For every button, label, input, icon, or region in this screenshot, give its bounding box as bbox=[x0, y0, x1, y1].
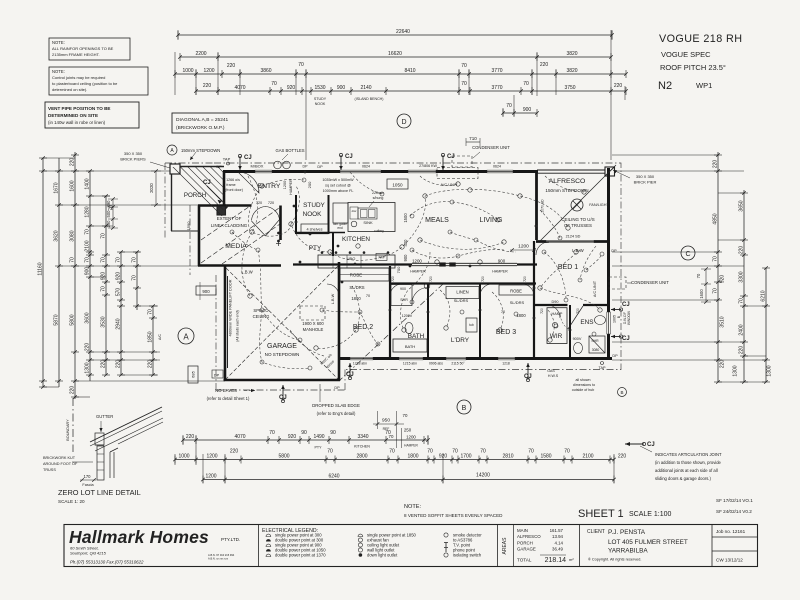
svg-text:70: 70 bbox=[713, 288, 719, 294]
CJ marker ldry bottom bbox=[524, 363, 532, 382]
svg-text:1400: 1400 bbox=[85, 178, 91, 189]
150mm stepdown note bbox=[181, 148, 220, 160]
alfresco fan/light symbol bbox=[571, 199, 609, 211]
svg-text:218.14: 218.14 bbox=[545, 557, 567, 564]
media room walls bbox=[198, 206, 281, 267]
dim 250/1200 hamper bbox=[402, 428, 419, 449]
window right wall ens bbox=[607, 312, 611, 334]
svg-text:220: 220 bbox=[720, 360, 726, 369]
svg-text:1590: 1590 bbox=[186, 221, 191, 231]
eave dashed outline bbox=[165, 163, 621, 390]
svg-text:70: 70 bbox=[389, 434, 394, 439]
interior wall ldry/bed3 bbox=[479, 284, 481, 359]
svg-text:220: 220 bbox=[148, 360, 154, 369]
garage manhole dashed box bbox=[300, 306, 325, 320]
right extension lines bbox=[612, 155, 766, 382]
svg-text:2115 50ʺ: 2115 50ʺ bbox=[451, 362, 465, 366]
svg-text:70: 70 bbox=[461, 63, 467, 69]
svg-text:3820: 3820 bbox=[566, 68, 577, 74]
svg-text:5800: 5800 bbox=[278, 454, 289, 460]
svg-text:STUDY: STUDY bbox=[314, 97, 327, 101]
svg-text:720: 720 bbox=[481, 276, 485, 282]
garage wall right / bed2 left bbox=[338, 262, 341, 381]
svg-text:PORCH: PORCH bbox=[184, 192, 206, 199]
svg-text:L'DRY: L'DRY bbox=[451, 337, 470, 344]
circled A marker bbox=[178, 328, 194, 344]
svg-text:250: 250 bbox=[404, 428, 412, 433]
svg-text:220: 220 bbox=[186, 434, 195, 440]
svg-text:NOTE:: NOTE: bbox=[52, 69, 65, 74]
circled C marker bbox=[681, 246, 695, 260]
svg-text:DP: DP bbox=[214, 374, 220, 378]
dim row 1000-3820 bbox=[173, 62, 628, 78]
svg-text:additional joints at each side: additional joints at each side of all bbox=[655, 468, 718, 473]
svg-text:710: 710 bbox=[469, 136, 477, 141]
svg-text:2140: 2140 bbox=[360, 85, 371, 91]
svg-text:1670: 1670 bbox=[54, 182, 60, 193]
svg-text:4070: 4070 bbox=[234, 434, 245, 440]
svg-text:170: 170 bbox=[84, 474, 92, 479]
svg-text:3650: 3650 bbox=[739, 200, 745, 211]
CJ marker porch bbox=[203, 180, 222, 204]
svg-text:CJ: CJ bbox=[345, 154, 353, 160]
svg-text:5800: 5800 bbox=[70, 314, 76, 325]
bed2 labels bbox=[349, 285, 373, 331]
living/alfresco wall bbox=[535, 171, 538, 240]
smoke detector symbols bbox=[424, 283, 430, 289]
svg-text:TAP: TAP bbox=[598, 366, 606, 370]
svg-text:700: 700 bbox=[396, 266, 401, 273]
svg-text:900: 900 bbox=[337, 85, 346, 91]
svg-text:BED 3: BED 3 bbox=[496, 329, 516, 336]
svg-text:14200: 14200 bbox=[476, 473, 490, 479]
svg-text:13.94: 13.94 bbox=[552, 534, 564, 539]
svg-text:220: 220 bbox=[70, 158, 76, 167]
svg-text:Control joints may be required: Control joints may be required bbox=[52, 75, 105, 80]
1050 box bbox=[387, 179, 408, 189]
svg-text:NOTE:: NOTE: bbox=[52, 40, 65, 45]
interior wall bath/ldry bbox=[427, 284, 429, 359]
svg-text:ENS: ENS bbox=[580, 319, 593, 326]
svg-text:HAMPER: HAMPER bbox=[492, 270, 508, 274]
svg-text:720: 720 bbox=[523, 276, 527, 282]
svg-text:920: 920 bbox=[288, 434, 297, 440]
bedroom row north wall bbox=[390, 282, 536, 284]
svg-text:MAIN: MAIN bbox=[517, 528, 528, 533]
svg-text:70: 70 bbox=[101, 286, 107, 292]
door arcs interior bbox=[327, 284, 568, 329]
svg-text:220: 220 bbox=[618, 454, 627, 460]
svg-text:NOOK: NOOK bbox=[303, 211, 323, 218]
svg-text:1000: 1000 bbox=[178, 454, 189, 460]
svg-text:AREAS: AREAS bbox=[502, 537, 508, 555]
svg-text:70: 70 bbox=[101, 233, 107, 239]
svg-text:1800: 1800 bbox=[407, 454, 418, 460]
svg-text:1700: 1700 bbox=[460, 454, 471, 460]
condenser unit right bbox=[609, 277, 669, 289]
meals rotated dims bbox=[396, 213, 408, 274]
svg-text:YARRABILBA: YARRABILBA bbox=[608, 548, 648, 555]
svg-text:to plasterboard ceiling (posit: to plasterboard ceiling (position to be bbox=[52, 81, 118, 86]
svg-text:SCALE 1:100: SCALE 1:100 bbox=[629, 511, 672, 518]
svg-text:BED 2: BED 2 bbox=[353, 324, 373, 331]
svg-text:220: 220 bbox=[70, 386, 76, 395]
svg-text:11160: 11160 bbox=[38, 262, 44, 275]
CJ marker top 3 bbox=[441, 153, 454, 170]
svg-text:4800mm WIDE PANELIFT DOOR: 4800mm WIDE PANELIFT DOOR bbox=[229, 279, 233, 336]
svg-text:BRICK PIER: BRICK PIER bbox=[634, 180, 657, 185]
svg-text:CJ: CJ bbox=[244, 155, 252, 161]
CJ marker right 2 bbox=[622, 336, 630, 342]
svg-text:70: 70 bbox=[480, 449, 486, 455]
svg-text:PTY: PTY bbox=[315, 446, 323, 450]
svg-text:Southport, Qld 4215: Southport, Qld 4215 bbox=[70, 551, 107, 556]
media cladding diagonals bbox=[201, 206, 280, 264]
svg-text:900: 900 bbox=[523, 107, 532, 113]
svg-text:70: 70 bbox=[85, 257, 91, 263]
svg-text:VOGUE 218 RH: VOGUE 218 RH bbox=[659, 33, 742, 45]
outer wall bottom bbox=[339, 357, 612, 360]
svg-text:2020: 2020 bbox=[149, 183, 154, 193]
note box: diagonal brickwork bbox=[172, 113, 248, 133]
bed3 room bbox=[496, 285, 534, 336]
ldry room bbox=[446, 287, 479, 345]
gas hws label bbox=[547, 369, 558, 378]
svg-text:Fascia: Fascia bbox=[82, 483, 94, 487]
bed1 north wall with slider bbox=[536, 240, 609, 243]
svg-text:STUDY: STUDY bbox=[303, 202, 325, 209]
svg-text:200: 200 bbox=[307, 181, 312, 188]
svg-text:720: 720 bbox=[576, 308, 580, 314]
svg-text:down light outlet: down light outlet bbox=[367, 553, 398, 558]
wir room bbox=[547, 300, 567, 344]
underwall tiny labels bbox=[353, 362, 510, 366]
svg-text:1300: 1300 bbox=[733, 365, 739, 376]
svg-text:8410: 8410 bbox=[404, 68, 415, 74]
svg-text:1218 abn: 1218 abn bbox=[353, 362, 367, 366]
svg-text:2135mm FRAME HEIGHT.: 2135mm FRAME HEIGHT. bbox=[52, 52, 100, 57]
svg-text:CONDENSER UNIT: CONDENSER UNIT bbox=[472, 145, 510, 150]
svg-text:LOT 405 FULMER STREET: LOT 405 FULMER STREET bbox=[608, 539, 688, 546]
study nook labels bbox=[301, 202, 328, 233]
svg-text:720: 720 bbox=[540, 308, 544, 314]
alfresco 1200 dim bbox=[510, 244, 536, 252]
svg-text:36.49: 36.49 bbox=[552, 547, 564, 552]
dp labels bbox=[214, 165, 618, 390]
svg-text:1850: 1850 bbox=[148, 331, 154, 342]
left dim col 2940 bbox=[116, 250, 126, 377]
dimensions note bbox=[572, 378, 595, 392]
svg-text:INDICATES ARTICULATION JOINT: INDICATES ARTICULATION JOINT bbox=[655, 452, 722, 457]
more dashed runs living meals bbox=[262, 172, 596, 280]
alfresco top edge thin bbox=[537, 169, 609, 171]
svg-text:920: 920 bbox=[287, 85, 296, 91]
svg-text:SPP TO: SPP TO bbox=[253, 308, 269, 313]
svg-text:sliding doors & garage doors.): sliding doors & garage doors.) bbox=[655, 476, 711, 481]
revision notes bbox=[716, 498, 753, 514]
svg-text:70: 70 bbox=[564, 449, 570, 455]
svg-text:1300: 1300 bbox=[85, 362, 91, 373]
left dim col 1850 bbox=[148, 304, 158, 377]
electrical legend column 2 bbox=[358, 533, 417, 558]
svg-text:A.B.N. xx xxx xxx: A.B.N. xx xxx xxx bbox=[208, 557, 229, 561]
svg-text:1200: 1200 bbox=[206, 454, 217, 460]
svg-text:s/hung: s/hung bbox=[373, 196, 384, 200]
kitchen cupboard left bbox=[333, 203, 348, 230]
window labels top wall bbox=[303, 164, 502, 169]
door swing labels 720 bbox=[391, 276, 580, 314]
svg-text:SCALE 1: 20: SCALE 1: 20 bbox=[58, 499, 85, 504]
electrical legend column 3 bbox=[444, 533, 482, 558]
svg-text:70: 70 bbox=[452, 449, 458, 455]
electrical dashed runs bbox=[242, 176, 600, 356]
svg-text:BOUNDARY: BOUNDARY bbox=[66, 419, 70, 441]
svg-text:B: B bbox=[462, 405, 467, 412]
svg-text:CJ: CJ bbox=[622, 302, 630, 308]
svg-text:70: 70 bbox=[403, 413, 408, 418]
svg-text:3770: 3770 bbox=[491, 68, 502, 74]
interior wall bed2/bath bbox=[389, 266, 391, 359]
svg-text:0906 abs: 0906 abs bbox=[429, 362, 443, 366]
svg-text:500: 500 bbox=[106, 210, 111, 218]
svg-text:(All studs each end): (All studs each end) bbox=[236, 310, 240, 342]
svg-text:dimensions to: dimensions to bbox=[573, 383, 595, 387]
svg-text:350 X 350: 350 X 350 bbox=[124, 151, 143, 156]
svg-text:H.W.S: H.W.S bbox=[548, 374, 559, 378]
svg-text:ALL RAINFOR OPENINGS TO BE: ALL RAINFOR OPENINGS TO BE bbox=[52, 46, 114, 51]
svg-text:350 X 350: 350 X 350 bbox=[636, 174, 655, 179]
svg-text:C: C bbox=[685, 251, 690, 258]
svg-text:220: 220 bbox=[739, 346, 745, 355]
svg-text:1200: 1200 bbox=[406, 435, 416, 440]
svg-text:920: 920 bbox=[116, 272, 122, 281]
svg-text:SF 17/02/14 VO.1: SF 17/02/14 VO.1 bbox=[716, 498, 753, 503]
svg-text:70: 70 bbox=[528, 449, 534, 455]
title block frame bbox=[64, 525, 758, 567]
gas bottles bbox=[274, 148, 305, 169]
svg-text:70: 70 bbox=[132, 275, 138, 281]
svg-text:SL/DRS: SL/DRS bbox=[454, 298, 469, 303]
fascia dim 170 bbox=[80, 474, 96, 487]
svg-text:VOGUE SPEC: VOGUE SPEC bbox=[661, 50, 711, 59]
svg-text:SINK: SINK bbox=[363, 220, 373, 225]
svg-text:end: end bbox=[337, 226, 343, 230]
svg-text:CLIENT: CLIENT bbox=[587, 529, 605, 535]
CJ marker bed2 bottom bbox=[346, 363, 354, 380]
svg-text:ROBE: ROBE bbox=[510, 289, 522, 294]
svg-text:1490: 1490 bbox=[313, 434, 324, 440]
svg-text:NOOK: NOOK bbox=[315, 102, 326, 106]
svg-text:isolating switch: isolating switch bbox=[453, 553, 482, 558]
svg-text:70: 70 bbox=[523, 81, 529, 87]
svg-text:(refer to detail Sheet 1): (refer to detail Sheet 1) bbox=[207, 396, 250, 401]
svg-text:1200: 1200 bbox=[203, 68, 214, 74]
svg-text:1035mW x 500mW: 1035mW x 500mW bbox=[322, 178, 354, 182]
svg-text:920: 920 bbox=[720, 275, 726, 284]
svg-text:TOTAL: TOTAL bbox=[517, 558, 532, 563]
windows top wall bbox=[255, 170, 513, 173]
left dim col short 70s bbox=[132, 250, 142, 310]
kitchen/hall wall stub bbox=[296, 232, 345, 234]
svg-text:6240: 6240 bbox=[328, 474, 339, 480]
left dim col 5800 bbox=[70, 152, 80, 399]
svg-text:1280: 1280 bbox=[85, 206, 91, 217]
bath wc bbox=[405, 323, 413, 334]
svg-text:720: 720 bbox=[268, 201, 274, 205]
svg-text:1800: 1800 bbox=[351, 296, 361, 301]
svg-text:M/BOX: M/BOX bbox=[251, 164, 264, 169]
svg-text:220: 220 bbox=[614, 83, 623, 89]
svg-text:DP: DP bbox=[216, 165, 222, 169]
svg-text:GARAGE: GARAGE bbox=[517, 547, 536, 552]
svg-text:2810: 2810 bbox=[502, 454, 513, 460]
svg-text:3080: 3080 bbox=[70, 230, 76, 241]
svg-text:HAMPER: HAMPER bbox=[404, 444, 418, 448]
svg-text:1005: 1005 bbox=[613, 315, 617, 323]
svg-text:161.57: 161.57 bbox=[550, 528, 564, 533]
svg-text:220: 220 bbox=[230, 449, 239, 455]
svg-text:CONDENSER UNIT: CONDENSER UNIT bbox=[631, 280, 669, 285]
svg-text:16620: 16620 bbox=[388, 51, 402, 57]
left extension lines bbox=[43, 158, 225, 397]
svg-text:390: 390 bbox=[106, 220, 111, 228]
svg-text:all shown: all shown bbox=[576, 378, 591, 382]
label 1200 meals wall bbox=[412, 258, 422, 263]
alfresco corner brick pier bbox=[605, 167, 615, 176]
svg-text:(front door): (front door) bbox=[225, 188, 243, 192]
svg-text:DP: DP bbox=[612, 354, 618, 358]
garage wall bottom bbox=[224, 379, 341, 382]
kitchen bench dots bbox=[321, 251, 390, 254]
dim row 2200/16620/3820 bbox=[178, 51, 613, 61]
svg-text:0624: 0624 bbox=[362, 165, 370, 169]
svg-text:1000mm above FL: 1000mm above FL bbox=[323, 189, 354, 193]
left dim col 5870 bbox=[54, 158, 64, 387]
svg-text:BRICK PIERS: BRICK PIERS bbox=[120, 157, 146, 162]
svg-text:Ph.(07) 55313130 Fax.(07: Ph.(07) 55313130 Fax.(07) 55310622 bbox=[70, 560, 144, 565]
svg-text:TRUSS: TRUSS bbox=[43, 468, 56, 472]
svg-text:70: 70 bbox=[366, 294, 370, 298]
circled D marker bbox=[397, 114, 411, 128]
areas table bbox=[502, 525, 574, 567]
alfresco labels bbox=[541, 178, 595, 239]
no eaves note bbox=[207, 388, 255, 401]
left dim col 3530 bbox=[101, 194, 115, 377]
boxed 685 garage dim bbox=[188, 366, 198, 383]
interior wall bed3/wir bed1 west bbox=[533, 241, 535, 359]
svg-text:DROPPED SLAB EDGE: DROPPED SLAB EDGE bbox=[312, 403, 360, 408]
svg-text:3750: 3750 bbox=[564, 85, 575, 91]
svg-text:NOTE:: NOTE: bbox=[404, 504, 422, 510]
svg-text:2100: 2100 bbox=[85, 240, 91, 251]
svg-text:1218: 1218 bbox=[502, 362, 510, 366]
svg-text:1200: 1200 bbox=[283, 181, 287, 189]
company abn tiny bbox=[208, 553, 235, 561]
kitchen shung note bbox=[369, 191, 384, 207]
svg-text:FAN/LIGHT: FAN/LIGHT bbox=[589, 203, 609, 207]
svg-text:A/C: A/C bbox=[158, 334, 162, 340]
circled B marker bbox=[457, 400, 471, 414]
svg-text:7WF: 7WF bbox=[378, 255, 385, 259]
svg-text:3510: 3510 bbox=[720, 316, 726, 327]
right stub dim 70/1600 bbox=[696, 267, 711, 304]
svg-text:SHR: SHR bbox=[400, 298, 408, 302]
svg-text:SHR: SHR bbox=[591, 339, 599, 343]
svg-text:N2: N2 bbox=[658, 80, 672, 92]
dim 710 above CJ bbox=[466, 136, 480, 146]
zero lot detail title bbox=[58, 488, 141, 504]
svg-text:570: 570 bbox=[116, 288, 122, 297]
svg-text:sq set cutout @: sq set cutout @ bbox=[325, 184, 351, 188]
svg-text:90: 90 bbox=[301, 430, 307, 436]
job number block bbox=[716, 529, 746, 563]
more circles living meals bbox=[302, 178, 582, 282]
svg-text:1200: 1200 bbox=[205, 474, 216, 480]
bed2 robe bbox=[340, 268, 389, 281]
svg-text:900: 900 bbox=[403, 254, 408, 262]
bottom dim extension lines bbox=[175, 435, 614, 483]
svg-text:900: 900 bbox=[202, 289, 210, 294]
left dim col 11160 bbox=[38, 156, 48, 389]
CJ marker right 1 bbox=[622, 302, 630, 308]
extra electrical circles media garage bbox=[230, 230, 604, 370]
media labels bbox=[211, 216, 248, 250]
right dim col 3650 bbox=[733, 190, 749, 384]
svg-text:PORCH: PORCH bbox=[517, 540, 533, 545]
right dim col 6210 bbox=[761, 266, 773, 384]
dim row 70/900 bbox=[501, 103, 539, 117]
svg-text:SL/DRS: SL/DRS bbox=[349, 285, 364, 290]
ens room bbox=[573, 316, 606, 354]
svg-text:4.14: 4.14 bbox=[554, 540, 563, 545]
note box 1: frame height bbox=[49, 38, 130, 60]
kitchen bench bottom bbox=[318, 253, 395, 268]
bath room bbox=[391, 285, 427, 353]
svg-text:Job no. 12161: Job no. 12161 bbox=[716, 529, 746, 534]
svg-text:70: 70 bbox=[148, 309, 154, 315]
svg-text:900V: 900V bbox=[573, 337, 582, 341]
svg-text:CW 13/12/12: CW 13/12/12 bbox=[716, 558, 743, 563]
note box 3: vent pipe bbox=[45, 102, 139, 128]
svg-text:KITCHEN: KITCHEN bbox=[342, 236, 370, 243]
svg-text:900: 900 bbox=[498, 258, 506, 263]
svg-text:27/806 KW: 27/806 KW bbox=[419, 164, 437, 168]
svg-text:VENT PIPE POSITION TO BE: VENT PIPE POSITION TO BE bbox=[48, 106, 110, 111]
top dim extension lines bbox=[175, 30, 625, 160]
svg-text:1530: 1530 bbox=[314, 85, 325, 91]
svg-text:4850: 4850 bbox=[713, 213, 719, 224]
svg-text:SHEET 1: SHEET 1 bbox=[578, 508, 624, 520]
svg-text:3300: 3300 bbox=[739, 271, 745, 282]
tap label bottom bbox=[598, 362, 606, 371]
svg-text:A/C UNIT: A/C UNIT bbox=[593, 280, 597, 297]
svg-text:PTY.LTD.: PTY.LTD. bbox=[221, 537, 240, 542]
svg-text:WINDOW: WINDOW bbox=[627, 311, 631, 325]
svg-text:NO STEPDOWN: NO STEPDOWN bbox=[265, 352, 300, 357]
svg-text:4 shelves: 4 shelves bbox=[306, 228, 322, 232]
svg-text:double power point at 1370: double power point at 1370 bbox=[275, 553, 326, 558]
svg-text:70: 70 bbox=[427, 449, 433, 455]
svg-text:HAMPER: HAMPER bbox=[289, 179, 293, 195]
svg-text:70: 70 bbox=[271, 81, 277, 87]
svg-text:A: A bbox=[183, 333, 189, 342]
svg-text:3600: 3600 bbox=[85, 312, 91, 323]
windows bottom wall bbox=[350, 357, 515, 360]
svg-text:70: 70 bbox=[506, 103, 512, 109]
svg-text:SF 24/02/14 V0.2: SF 24/02/14 V0.2 bbox=[716, 509, 752, 514]
svg-text:70: 70 bbox=[389, 449, 395, 455]
svg-text:1000: 1000 bbox=[182, 68, 193, 74]
